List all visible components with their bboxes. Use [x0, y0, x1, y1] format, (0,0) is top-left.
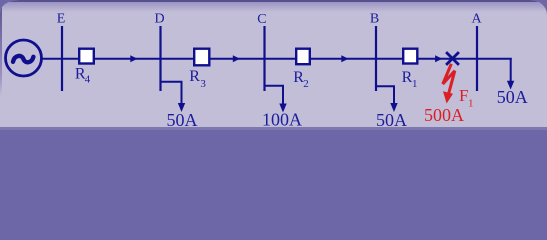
- svg-text:R: R: [402, 69, 413, 86]
- svg-text:500A: 500A: [424, 105, 464, 125]
- svg-text:50A: 50A: [376, 110, 407, 130]
- svg-text:2: 2: [303, 78, 309, 90]
- svg-text:50A: 50A: [497, 87, 528, 107]
- svg-text:1: 1: [468, 98, 474, 110]
- svg-text:3: 3: [200, 78, 206, 90]
- svg-text:A: A: [472, 12, 483, 27]
- svg-text:100A: 100A: [262, 110, 302, 130]
- svg-text:R: R: [189, 68, 200, 85]
- svg-text:4: 4: [85, 73, 91, 85]
- svg-text:50A: 50A: [167, 110, 198, 130]
- svg-text:1: 1: [412, 78, 418, 90]
- svg-text:D: D: [154, 12, 164, 27]
- svg-text:C: C: [257, 12, 266, 27]
- svg-text:B: B: [370, 12, 379, 27]
- svg-text:E: E: [57, 11, 66, 26]
